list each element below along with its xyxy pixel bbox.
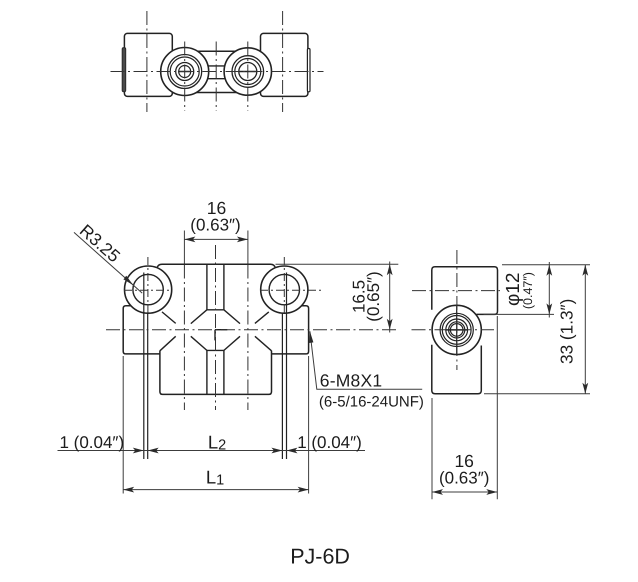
top view: left boss ring 3 [170,57,199,86]
top view: left dark end band [122,48,126,92]
side view: side port vertical solid crosshair [456,306,458,355]
dim 33: bottom extension line [484,393,590,395]
arrow: dim 16 top right [237,237,248,243]
svg-text:(0.63″): (0.63″) [439,468,489,487]
svg-text:1 (0.04″): 1 (0.04″) [60,433,125,452]
arrow: dim 33 up [582,265,588,276]
side view: side port boss outer circle [432,305,481,354]
dim 16.5: top extension (top edge extended) [276,263,399,265]
leader R3.25 [74,232,142,293]
arrow: dim 16.5 down [387,319,393,330]
arrow: 6-M8X1 leader [309,331,313,343]
arrow: dim L2 left pointing left [148,448,159,454]
front view: bottom port column right line [223,350,225,394]
top view: web tangent line upper [185,50,248,52]
arrow: dim 1 left pointing right [133,448,144,454]
svg-text:(6-5/16-24UNF): (6-5/16-24UNF) [319,394,424,411]
arrow: R3.25 leader [123,278,133,286]
arrow: dim 1 right pointing left [287,448,298,454]
front view: left port vertical centerline [183,265,185,411]
front view: body top edge with fillets [157,264,276,268]
top view: right thin end band [307,49,310,92]
top view: right boss ring 3 [235,59,261,85]
dim L1: dimension line [123,489,308,491]
front view: bottom port column top bar [207,349,224,351]
front view: left mount hole inner circle [133,274,163,304]
top view: left boss slot bar [178,71,191,73]
svg-text:(0.63″): (0.63″) [190,215,240,234]
top view: right clamp block [261,33,308,96]
svg-text:1 (0.04″): 1 (0.04″) [297,433,362,452]
dim 16 top: right extension line [247,231,249,264]
front view: middle vertical centerline [215,245,217,410]
top view: horizontal centerline [107,71,324,73]
arrow: dim L2 right pointing right [271,448,282,454]
dim phi12: bottom extension line [484,313,555,315]
arrow: dim 16 side right [486,489,497,495]
front view: chamfer diagonal c [224,310,240,324]
side view: upper block outline [432,267,498,315]
front view: chamfer diagonal b [191,310,207,324]
arrow: dim L1 right [298,487,309,493]
dim phi12: dimension line [548,262,550,318]
front view: lower body [160,351,272,395]
front view: chamfer diagonal a [162,312,176,324]
side view: side port ring 2 [440,313,473,346]
dim bottom 1/L2/1: dimension line [58,450,366,452]
front view: left mount hole outer circle [125,266,172,313]
top view: left boss outer circle [161,48,209,96]
front view: center hex corner edge horizontal [215,329,227,331]
front view: right hole line outer [286,273,288,460]
front view: bottom port column left line [206,350,208,394]
front view: main horizontal centerline [106,329,398,331]
top view: web tangent line lower [185,92,248,94]
svg-text:PJ-6D: PJ-6D [290,544,350,568]
arrow: dim 33 down [582,383,588,394]
front view: right tab [271,306,308,354]
leader 6-M8X1 [310,331,422,389]
front view: left hole line outer [143,273,145,460]
top view: left boss ring 4 [176,63,194,81]
svg-text:(0.47″): (0.47″) [521,272,535,309]
arrow: dim L1 left [123,487,134,493]
arrow: dim 16 top left [184,237,195,243]
front view: top port column bottom bar [207,309,224,311]
dim 33: dimension line [584,265,586,394]
front view: chamfer diagonal f [191,336,207,350]
top view: right boss outer circle [224,48,271,95]
front view: left hole crosshair vertical [147,257,149,313]
front view: chamfer diagonal h [255,336,272,351]
side view: side port slot bar [446,329,467,331]
front view: right mount hole outer circle [261,266,308,313]
front view: chamfer diagonal d [255,312,269,324]
arrow: dim 16 side left [432,489,443,495]
top view: centerline right boss [247,38,249,111]
dim 16 top: left extension line [183,231,185,264]
front view: top port column right line [223,264,225,310]
top view: left boss inner circle [179,66,191,78]
front view: right mount hole inner circle [269,274,299,304]
side view: lower block outline [432,345,482,394]
side view: upper horizontal centerline [412,290,500,292]
front view: right hole crosshair horizontal [260,289,322,291]
side view: vertical centerline [456,250,458,370]
top view: centerline right block [282,8,284,113]
top view: left clamp block [124,33,172,96]
front view: chamfer diagonal g [224,336,240,350]
side view: port horizontal centerline [412,329,495,331]
arrow: dim 16.5 up [387,264,393,275]
top view: neck line upper [185,65,248,67]
top view: left boss ring 2 [168,55,202,89]
top view: right boss slot bar [239,71,257,73]
front view: left tab [123,306,160,354]
front view: left hole crosshair horizontal [124,289,173,291]
front view: chamfer diagonal e [160,336,176,351]
dim 16 side: left extension line [431,398,433,499]
svg-text:33 (1.3″): 33 (1.3″) [557,299,577,364]
dim 16 top: dimension line [184,238,248,240]
top view: centerline left boss [184,38,186,111]
front view: top port column left line [206,264,208,310]
front view: right port vertical centerline [247,265,249,411]
front view: right hole crosshair vertical [283,257,285,313]
top view: right boss inner circle [239,63,257,81]
top view: centerline left block [146,8,148,113]
front view: right hole line center [281,313,283,459]
side view: side port ring 4 [446,319,468,341]
side view: side port ring 3 [442,316,471,345]
dim 16 side: dimension line [432,491,497,493]
dim 16 side: right extension line [496,316,498,499]
top view: right boss ring 2 [232,56,264,88]
side view: side port inner circle [450,324,463,337]
arrow: dim phi12 down [546,303,552,314]
arrow: dim phi12 up [546,265,552,276]
svg-text:6-M8X1: 6-M8X1 [320,371,382,391]
front view: center hex corner edge vertical [214,330,216,341]
top view: neck line lower [185,78,248,80]
dim L1: right extension line [308,356,310,494]
dim L1: left extension line [122,356,124,494]
top view: centerline middle [215,38,217,111]
side view: side port ring 5 [449,322,465,338]
svg-text:(0.65″): (0.65″) [364,271,383,321]
dim 33+phi12: top extension line [502,264,590,266]
dim 16.5: dimension line [389,262,391,333]
front view: left hole line center [147,313,149,459]
